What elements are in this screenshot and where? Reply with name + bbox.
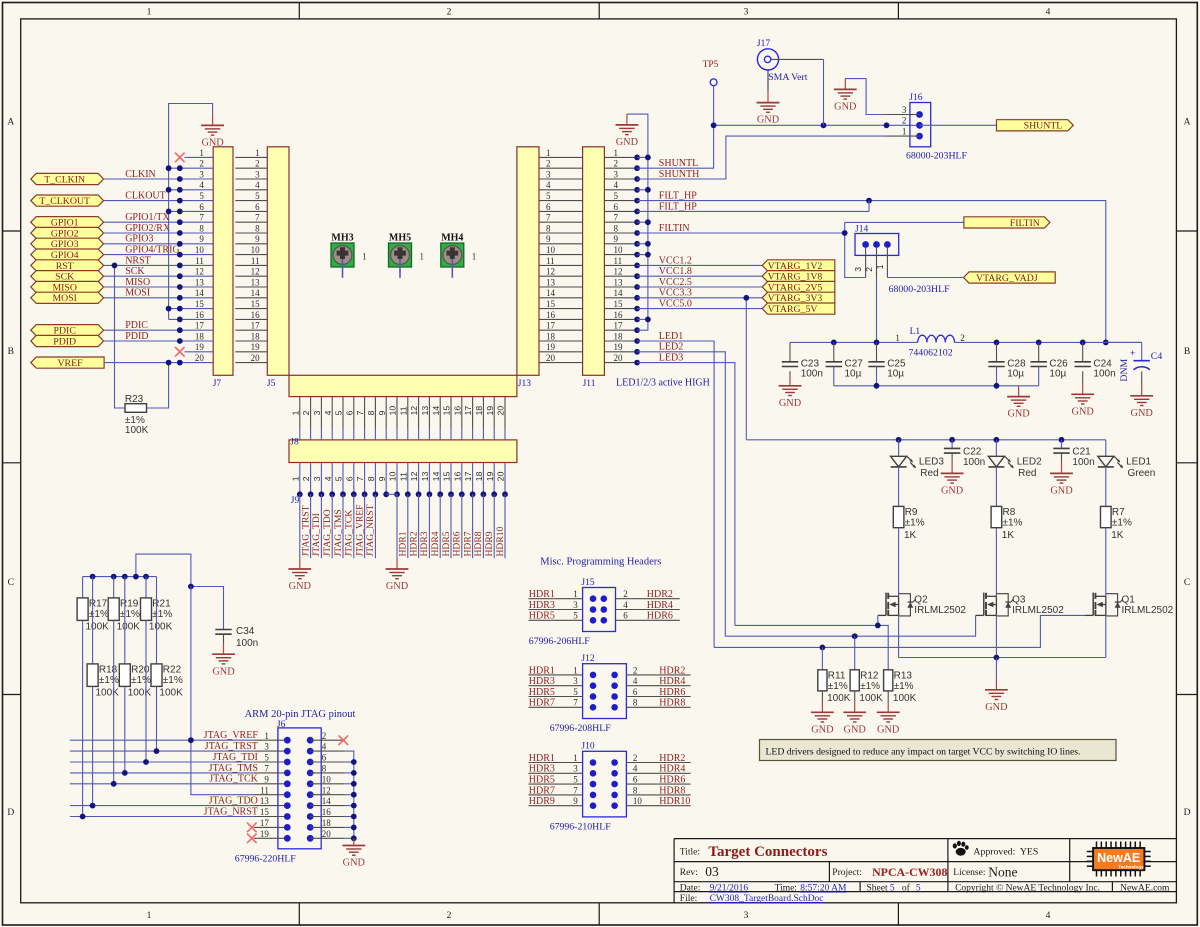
svg-text:8: 8 (366, 410, 376, 415)
svg-text:C34: C34 (236, 626, 255, 637)
svg-text:C: C (8, 578, 14, 588)
svg-text:100n: 100n (963, 457, 985, 468)
svg-text:9: 9 (255, 234, 260, 244)
svg-text:1: 1 (420, 252, 425, 262)
svg-text:19: 19 (251, 342, 261, 352)
svg-text:19: 19 (614, 342, 624, 352)
svg-text:R17: R17 (89, 599, 108, 610)
svg-text:10: 10 (546, 245, 556, 255)
svg-text:±1%: ±1% (99, 675, 119, 686)
port PDIC (31, 325, 104, 337)
svg-text:GND: GND (757, 115, 780, 126)
port RST (31, 260, 104, 272)
no-connect X J6 pin17 (247, 823, 257, 833)
svg-text:9: 9 (614, 234, 619, 244)
connector J6 (235, 720, 345, 865)
svg-text:License:: License: (953, 868, 985, 878)
svg-text:T_CLKIN: T_CLKIN (44, 174, 85, 185)
svg-text:10µ: 10µ (1007, 369, 1024, 380)
wire J6 even pins bus to GND (345, 751, 357, 841)
svg-text:JTAG_TMS: JTAG_TMS (209, 763, 258, 774)
svg-text:HDR6: HDR6 (647, 611, 673, 622)
ground symbol under C4 (1130, 385, 1153, 419)
svg-text:HDR7: HDR7 (529, 785, 555, 796)
svg-text:1: 1 (546, 148, 551, 158)
wire J9 pin19 HDR9 (484, 494, 495, 558)
svg-text:LED3: LED3 (919, 456, 944, 467)
wire VCC row11 (637, 264, 762, 266)
svg-text:8: 8 (633, 785, 638, 795)
svg-text:Q2: Q2 (914, 594, 928, 605)
capacitor C21 (1053, 440, 1094, 468)
svg-text:MOSI: MOSI (52, 293, 77, 304)
svg-text:HDR9: HDR9 (529, 796, 555, 807)
wire J9 pin20 HDR10 (495, 494, 506, 558)
svg-text:1: 1 (573, 665, 578, 675)
svg-text:6: 6 (623, 611, 628, 621)
svg-text:100n: 100n (801, 369, 823, 380)
resistor R13 (884, 670, 917, 704)
svg-text:4: 4 (1046, 911, 1051, 921)
svg-text:19: 19 (485, 471, 495, 481)
svg-text:8: 8 (366, 476, 376, 481)
svg-text:HDR1: HDR1 (529, 589, 555, 600)
port GPIO2 (31, 227, 104, 239)
svg-text:14: 14 (431, 471, 441, 481)
no-connect X row1 (175, 153, 185, 163)
svg-text:5: 5 (916, 884, 921, 894)
svg-text:10: 10 (322, 774, 332, 784)
svg-text:LED2: LED2 (1017, 456, 1042, 467)
svg-text:HDR1: HDR1 (398, 531, 409, 556)
svg-text:68000-203HLF: 68000-203HLF (906, 151, 968, 162)
svg-text:3: 3 (573, 600, 578, 610)
port FILTIN (964, 217, 1050, 229)
svg-text:JTAG_NRST: JTAG_NRST (204, 806, 258, 817)
svg-text:17: 17 (195, 321, 205, 331)
svg-text:4: 4 (633, 676, 638, 686)
svg-text:HDR2: HDR2 (659, 665, 685, 676)
svg-text:10: 10 (195, 245, 205, 255)
svg-text:File:: File: (680, 894, 697, 904)
svg-text:13: 13 (614, 277, 624, 287)
mounting hole MH4 (441, 232, 477, 277)
svg-text:5: 5 (546, 191, 551, 201)
capacitor C25 (868, 342, 906, 385)
svg-text:18: 18 (251, 331, 261, 341)
svg-text:2: 2 (633, 753, 638, 763)
svg-text:1: 1 (147, 8, 152, 18)
svg-text:MISO: MISO (125, 277, 150, 288)
svg-text:±1%: ±1% (905, 518, 925, 529)
svg-text:20: 20 (322, 829, 332, 839)
svg-text:Date:: Date: (680, 884, 701, 894)
svg-text:1K: 1K (1111, 530, 1124, 541)
svg-text:1: 1 (472, 252, 477, 262)
connector J12 (529, 654, 691, 734)
svg-text:100n: 100n (236, 638, 258, 649)
title block (674, 839, 1176, 904)
svg-text:20: 20 (496, 471, 506, 481)
svg-text:JTAG_TDO: JTAG_TDO (322, 509, 333, 556)
svg-text:15: 15 (251, 299, 261, 309)
svg-text:VTARG_VADJ: VTARG_VADJ (976, 273, 1038, 284)
svg-text:7: 7 (573, 698, 578, 708)
wire R9 to Q2 drain (898, 528, 900, 597)
ground symbol J6 (342, 838, 365, 868)
connector J16 (887, 93, 997, 162)
svg-text:11: 11 (251, 256, 260, 266)
svg-text:8: 8 (199, 223, 204, 233)
svg-text:GND: GND (834, 102, 857, 113)
svg-text:HDR4: HDR4 (430, 531, 441, 556)
svg-text:6: 6 (344, 476, 354, 481)
wires left port rows to J7 (104, 157, 214, 362)
svg-text:SCK: SCK (125, 266, 145, 277)
svg-text:GND: GND (1007, 409, 1030, 420)
svg-text:67996-206HLF: 67996-206HLF (529, 636, 591, 647)
ground symbol top left (201, 115, 224, 149)
svg-text:Misc. Programming Headers: Misc. Programming Headers (540, 557, 661, 568)
svg-text:J9: J9 (291, 496, 300, 506)
wire J9 pin12 HDR2 (408, 494, 419, 558)
svg-text:13: 13 (546, 277, 556, 287)
wire LED1 row18 (637, 341, 714, 647)
resistor R8 (991, 506, 1022, 540)
resistor R22 (151, 577, 183, 699)
wire J9 pin17 HDR7 (462, 494, 473, 558)
J9 pin1 to GND (288, 494, 311, 592)
svg-text:2: 2 (322, 731, 327, 741)
approved paw icon (953, 841, 969, 856)
transistor Q1 (1085, 593, 1174, 617)
svg-text:1: 1 (290, 476, 300, 481)
svg-text:HDR7: HDR7 (529, 698, 555, 709)
svg-text:R23: R23 (125, 394, 144, 405)
svg-text:R8: R8 (1003, 507, 1016, 518)
svg-text:11: 11 (398, 406, 408, 415)
svg-text:7: 7 (546, 213, 551, 223)
svg-text:1: 1 (573, 753, 578, 763)
svg-text:19: 19 (485, 406, 495, 416)
capacitor C23 (782, 342, 823, 379)
ground symbol under C21 (1050, 463, 1073, 497)
svg-text:SMA Vert: SMA Vert (768, 72, 808, 83)
svg-text:17: 17 (260, 818, 270, 828)
capacitor C27 (826, 342, 864, 385)
svg-text:9/21/2016: 9/21/2016 (710, 884, 749, 894)
svg-text:LED1: LED1 (659, 331, 683, 342)
connector J10 (529, 742, 691, 833)
wire GND bus right of J11 (627, 114, 651, 330)
svg-text:JTAG_TMS: JTAG_TMS (333, 509, 344, 556)
svg-text:12: 12 (546, 267, 555, 277)
svg-text:100K: 100K (893, 693, 917, 704)
svg-text:9: 9 (546, 234, 551, 244)
svg-text:3: 3 (744, 8, 749, 18)
ground symbol under R13 (877, 702, 900, 736)
svg-text:CW308_TargetBoard.SchDoc: CW308_TargetBoard.SchDoc (710, 894, 824, 904)
svg-text:J12: J12 (581, 654, 594, 664)
svg-text:HDR3: HDR3 (529, 600, 555, 611)
wire J9 pin14 HDR4 (430, 494, 441, 558)
svg-text:GND: GND (941, 486, 964, 497)
svg-text:14: 14 (251, 288, 261, 298)
svg-text:1: 1 (264, 731, 269, 741)
svg-text:MH5: MH5 (389, 232, 411, 243)
wire J14 pin1 to VTARG_VADJ (887, 277, 963, 279)
svg-text:11: 11 (398, 472, 408, 481)
svg-text:J10: J10 (581, 742, 594, 752)
resistor R11 (818, 647, 851, 704)
svg-text:GND: GND (1072, 406, 1095, 417)
svg-text:CLKOUT: CLKOUT (125, 191, 166, 202)
capacitor C34 (215, 626, 258, 649)
svg-text:R20: R20 (131, 665, 150, 676)
svg-text:JTAG_TRST: JTAG_TRST (300, 505, 311, 556)
svg-text:1K: 1K (904, 530, 917, 541)
svg-text:2: 2 (960, 333, 965, 343)
svg-text:GPIO4/TRIG: GPIO4/TRIG (125, 245, 179, 256)
svg-text:of: of (902, 883, 911, 894)
svg-text:16: 16 (322, 807, 332, 817)
svg-text:R21: R21 (152, 599, 171, 610)
svg-text:100K: 100K (149, 621, 173, 632)
svg-text:MH3: MH3 (331, 232, 353, 243)
svg-text:A: A (7, 117, 14, 127)
connector J11 (583, 147, 640, 389)
svg-text:16: 16 (251, 310, 261, 320)
svg-text:HDR7: HDR7 (462, 531, 473, 556)
svg-text:100K: 100K (96, 687, 120, 698)
svg-text:HDR6: HDR6 (452, 531, 463, 556)
svg-text:20: 20 (614, 353, 624, 363)
svg-text:±1%: ±1% (860, 681, 880, 692)
svg-text:1: 1 (902, 126, 907, 136)
wire filter rail left (790, 340, 918, 346)
port GPIO1 (31, 217, 104, 229)
svg-text:14: 14 (195, 288, 205, 298)
svg-text:15: 15 (614, 299, 624, 309)
svg-text:Title:: Title: (680, 847, 700, 857)
svg-text:18: 18 (474, 471, 484, 481)
svg-text:3: 3 (614, 169, 619, 179)
connector bottom band J5-J13 (289, 375, 517, 396)
capacitor C22 (944, 440, 985, 468)
svg-text:2: 2 (614, 159, 619, 169)
port MISO (31, 281, 104, 293)
svg-text:HDR4: HDR4 (659, 676, 685, 687)
svg-text:3: 3 (312, 476, 322, 481)
svg-text:R7: R7 (1112, 507, 1125, 518)
svg-text:1: 1 (573, 589, 578, 599)
svg-text:HDR5: HDR5 (529, 611, 555, 622)
svg-text:17: 17 (251, 321, 261, 331)
svg-text:±1%: ±1% (120, 609, 140, 620)
svg-text:±1%: ±1% (152, 609, 172, 620)
svg-text:3: 3 (744, 911, 749, 921)
svg-text:5: 5 (334, 476, 344, 481)
svg-text:None: None (988, 865, 1017, 880)
wire J9 pin2 JTAG_TRST (300, 494, 311, 558)
svg-text:16: 16 (546, 310, 556, 320)
svg-text:GND: GND (1050, 486, 1073, 497)
ground symbol under C24 (1071, 384, 1094, 418)
svg-text:JTAG_TDO: JTAG_TDO (209, 796, 258, 807)
svg-text:10: 10 (614, 245, 624, 255)
wire resistor bus (83, 574, 157, 580)
svg-text:12: 12 (614, 267, 623, 277)
port T_CLKIN (31, 173, 104, 185)
svg-text:PDID: PDID (125, 331, 148, 342)
connector J5 (235, 147, 289, 389)
band pins down to J8 and J9 (290, 397, 508, 506)
svg-text:7: 7 (355, 476, 365, 481)
svg-text:J16: J16 (909, 93, 922, 103)
svg-text:R12: R12 (860, 670, 879, 681)
ground symbol under J17 (757, 92, 780, 126)
svg-text:6: 6 (546, 202, 551, 212)
svg-text:68000-203HLF: 68000-203HLF (889, 284, 951, 295)
svg-text:9: 9 (377, 410, 387, 415)
svg-text:3: 3 (264, 742, 269, 752)
svg-text:HDR4: HDR4 (647, 600, 673, 611)
svg-text:HDR4: HDR4 (659, 764, 685, 775)
resistor R12 (850, 636, 883, 704)
svg-text:1K: 1K (1002, 530, 1015, 541)
svg-text:J17: J17 (757, 39, 770, 49)
svg-text:FILT_HP: FILT_HP (659, 191, 697, 202)
svg-text:IRLML2502: IRLML2502 (914, 605, 966, 616)
svg-text:100K: 100K (859, 693, 883, 704)
svg-text:GND: GND (343, 858, 366, 869)
svg-text:PDID: PDID (53, 336, 76, 347)
ground symbol under R11 (811, 702, 834, 736)
resistor R20 (119, 577, 151, 699)
LED3 diode (891, 440, 945, 507)
transistor Q3 (976, 593, 1065, 617)
svg-text:3: 3 (255, 169, 260, 179)
svg-text:3: 3 (312, 410, 322, 415)
svg-text:±1%: ±1% (894, 681, 914, 692)
svg-text:MH4: MH4 (441, 232, 463, 243)
svg-text:14: 14 (546, 288, 556, 298)
svg-text:J15: J15 (581, 578, 594, 588)
svg-text:±1%: ±1% (828, 681, 848, 692)
svg-text:12: 12 (322, 785, 331, 795)
svg-text:100n: 100n (1072, 457, 1094, 468)
svg-text:R9: R9 (905, 507, 918, 518)
svg-text:12: 12 (409, 406, 419, 416)
svg-text:VCC5.0: VCC5.0 (659, 299, 692, 310)
svg-text:D: D (1184, 808, 1191, 818)
port SHUNTL (997, 120, 1074, 132)
port VTARG_3V3 (762, 292, 835, 304)
svg-text:6: 6 (614, 202, 619, 212)
ground symbol under C22 (941, 463, 964, 497)
svg-text:±1%: ±1% (163, 675, 183, 686)
svg-text:6: 6 (199, 202, 204, 212)
wire SHUNTL net row2 (637, 86, 919, 169)
svg-text:4: 4 (633, 764, 638, 774)
svg-text:1: 1 (255, 148, 260, 158)
svg-text:LED2: LED2 (659, 342, 683, 353)
svg-text:C: C (1184, 578, 1190, 588)
svg-text:Approved: YES: Approved: YES (973, 847, 1038, 858)
svg-text:7: 7 (255, 213, 260, 223)
svg-text:10µ: 10µ (1049, 369, 1066, 380)
svg-text:FILTIN: FILTIN (659, 223, 690, 234)
svg-text:5: 5 (334, 410, 344, 415)
connector J13 (517, 147, 583, 389)
svg-text:GND: GND (289, 581, 312, 592)
ground symbol left of J13 top (616, 114, 639, 148)
svg-text:IRLML2502: IRLML2502 (1012, 605, 1064, 616)
svg-text:67996-210HLF: 67996-210HLF (550, 821, 612, 832)
svg-text:VCC1.8: VCC1.8 (659, 266, 692, 277)
svg-text:17: 17 (463, 471, 473, 481)
svg-text:HDR6: HDR6 (659, 687, 685, 698)
svg-text:JTAG_NRST: JTAG_NRST (365, 504, 376, 556)
svg-text:HDR5: HDR5 (529, 687, 555, 698)
svg-text:GND: GND (212, 666, 235, 677)
svg-text:JTAG_TDI: JTAG_TDI (213, 752, 258, 763)
svg-text:7: 7 (573, 785, 578, 795)
svg-text:5: 5 (255, 191, 260, 201)
svg-text:16: 16 (614, 310, 624, 320)
svg-text:JTAG_TDI: JTAG_TDI (311, 513, 322, 556)
svg-text:GND: GND (811, 724, 834, 735)
svg-text:15: 15 (442, 471, 452, 481)
resistor R19 (108, 577, 140, 633)
svg-text:6: 6 (344, 410, 354, 415)
wire J14 pin2 down (876, 278, 878, 343)
svg-text:17: 17 (463, 406, 473, 416)
svg-text:12: 12 (195, 267, 204, 277)
mounting hole MH3 (331, 232, 367, 277)
svg-text:5: 5 (890, 884, 895, 894)
svg-text:GPIO1/TX: GPIO1/TX (125, 212, 170, 223)
svg-text:HDR1: HDR1 (529, 665, 555, 676)
svg-text:FILTIN: FILTIN (1010, 218, 1040, 229)
svg-text:DNM: DNM (1119, 358, 1130, 381)
svg-text:1: 1 (614, 148, 619, 158)
svg-text:16: 16 (195, 310, 205, 320)
resistor R21 (141, 577, 173, 633)
svg-text:IRLML2502: IRLML2502 (1122, 605, 1174, 616)
svg-text:11: 11 (260, 785, 269, 795)
svg-text:TP5: TP5 (703, 60, 719, 70)
svg-text:HDR5: HDR5 (441, 531, 452, 556)
wire VCC row13 (637, 286, 762, 288)
svg-text:17: 17 (546, 321, 556, 331)
wire LED2 row19 (637, 352, 725, 636)
svg-text:2: 2 (902, 116, 907, 126)
junction dots J7 pin column (177, 165, 183, 365)
port VTARG_1V2 (762, 260, 835, 272)
svg-text:15: 15 (442, 406, 452, 416)
connector J17 SMA (757, 39, 824, 125)
test point TP5 (703, 60, 719, 86)
svg-text:5: 5 (573, 687, 578, 697)
svg-text:10: 10 (388, 406, 398, 416)
svg-text:10: 10 (633, 796, 643, 806)
svg-text:10: 10 (388, 471, 398, 481)
wire J9 pin5 JTAG_TMS (333, 494, 344, 558)
svg-text:R13: R13 (894, 670, 913, 681)
no-connect X row19 (175, 347, 185, 357)
svg-text:18: 18 (546, 331, 556, 341)
